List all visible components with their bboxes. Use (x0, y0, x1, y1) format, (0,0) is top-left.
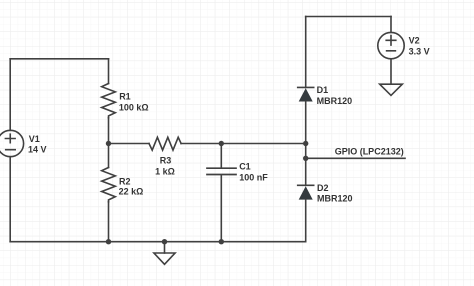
svg-text:D2: D2 (317, 183, 329, 193)
wire D1 to node (305, 102, 307, 144)
wire right vertical top (305, 17, 307, 88)
ground (V2) (380, 84, 403, 95)
resistor R2 (102, 168, 116, 202)
wire left vertical lower (9, 157, 11, 242)
node R1/R3 junction (106, 141, 111, 146)
svg-text:V1: V1 (29, 134, 40, 144)
wire D2 bottom (305, 200, 307, 242)
svg-text:D1: D1 (317, 85, 329, 95)
diode D1 (298, 87, 314, 101)
wire bottom rail (10, 241, 306, 243)
svg-text:C1: C1 (239, 162, 251, 172)
wire top rail (306, 16, 391, 18)
svg-text:1 kΩ: 1 kΩ (155, 167, 175, 177)
svg-text:100 nF: 100 nF (239, 173, 268, 183)
svg-text:R2: R2 (119, 176, 131, 186)
wire V2 bottom (390, 59, 392, 84)
svg-text:GPIO (LPC2132): GPIO (LPC2132) (335, 147, 404, 157)
node diode column upper junction (303, 141, 308, 146)
wire R2 top (108, 144, 110, 168)
node ground junction (162, 239, 167, 244)
wire R3 right (181, 143, 221, 145)
svg-text:22 kΩ: 22 kΩ (119, 187, 144, 197)
wire R3 left (109, 143, 150, 145)
svg-text:100 kΩ: 100 kΩ (119, 103, 149, 113)
wire node to GPIO node (305, 144, 307, 159)
wire top-left horizontal (10, 58, 108, 60)
node GPIO junction (303, 156, 308, 161)
node C1 bottom junction (219, 239, 224, 244)
svg-text:14 V: 14 V (28, 144, 47, 154)
wire C1 node to diode column (221, 143, 305, 145)
svg-text:MBR120: MBR120 (317, 194, 353, 204)
wire left vertical upper (9, 59, 11, 131)
svg-text:R3: R3 (160, 156, 172, 166)
capacitor C1 (207, 144, 236, 242)
svg-text:V2: V2 (409, 36, 420, 46)
svg-text:R1: R1 (119, 92, 131, 102)
node C1 top junction (219, 141, 224, 146)
ground (bottom) (154, 242, 175, 265)
wire R2 bottom (108, 202, 110, 242)
wire GPIO node to D2 (305, 158, 307, 185)
resistor R3 (149, 137, 181, 150)
wire GPIO (306, 157, 405, 159)
voltage source V2 (378, 32, 404, 58)
svg-text:3.3 V: 3.3 V (409, 46, 430, 56)
wire V2 top (390, 17, 392, 33)
wire R1 bottom (108, 118, 110, 144)
diode D2 (298, 185, 314, 199)
voltage source V1 (0, 130, 24, 156)
node R2 bottom junction (106, 239, 111, 244)
svg-text:MBR120: MBR120 (317, 96, 353, 106)
resistor R1 (102, 84, 116, 118)
wire R1 top (108, 59, 110, 84)
